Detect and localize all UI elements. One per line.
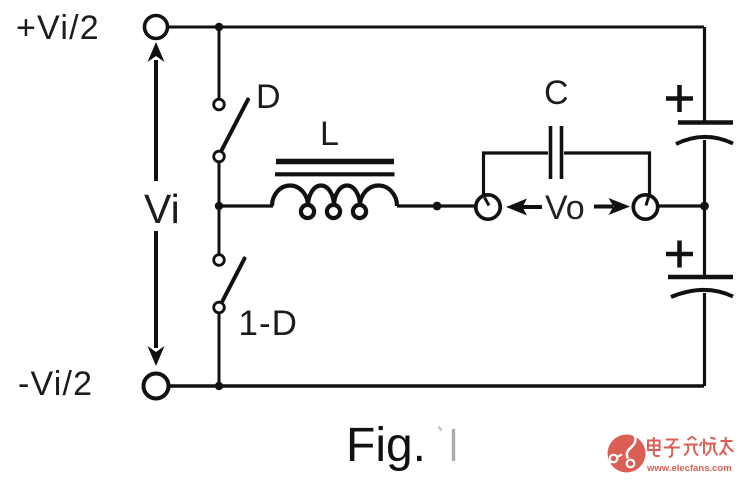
- wire switch column segment 1: [218, 27, 221, 99]
- caption figure number 1: [439, 427, 454, 462]
- node bottom junction: [215, 382, 223, 390]
- watermark text elecfans chinese: [648, 437, 733, 458]
- wire right rail lower: [703, 293, 706, 386]
- capacitor C2: [668, 277, 733, 297]
- wire right rail upper: [703, 27, 706, 121]
- svg-text:Vo: Vo: [545, 189, 585, 227]
- capacitor C2 plus sign: [666, 241, 693, 268]
- switch 1-D: [214, 255, 245, 313]
- svg-text:C: C: [544, 74, 569, 112]
- switch D: [214, 99, 248, 162]
- wire bottom rail: [169, 384, 704, 387]
- capacitor C1: [676, 123, 733, 145]
- terminal Vo right: [633, 195, 657, 219]
- arrow Vi double-headed: [148, 42, 165, 366]
- svg-text:+Vi/2: +Vi/2: [16, 9, 100, 47]
- inductor L core bars: [275, 162, 395, 175]
- arrow Vo right: [594, 198, 630, 215]
- svg-text:Vi: Vi: [144, 186, 180, 232]
- terminal -Vi/2: [144, 374, 169, 399]
- wire switch column segment 2: [218, 162, 221, 206]
- arrow Vo left: [506, 199, 542, 216]
- terminal +Vi/2: [145, 16, 168, 39]
- node middle junction: [215, 202, 223, 210]
- terminal Vo left: [476, 195, 500, 219]
- svg-text:D: D: [256, 78, 281, 116]
- wire right rail middle: [703, 140, 706, 275]
- svg-text:Fig.: Fig.: [346, 419, 426, 472]
- wire middle left: [219, 204, 273, 207]
- watermark logo elecfans: [606, 435, 646, 473]
- wire capacitor C left: [484, 153, 549, 197]
- capacitor C plates: [551, 126, 562, 179]
- node top junction: [215, 23, 223, 31]
- svg-text:L: L: [320, 115, 339, 153]
- inductor L coil: [272, 186, 397, 219]
- svg-text:-Vi/2: -Vi/2: [18, 365, 93, 403]
- wire capacitor C right: [564, 153, 650, 195]
- svg-text:www.elecfans.com: www.elecfans.com: [646, 463, 732, 474]
- wire switch column segment 4: [218, 313, 221, 386]
- wire Vo right to rail: [658, 204, 705, 207]
- node rail junction: [700, 202, 709, 211]
- wire middle right: [397, 204, 476, 207]
- wire switch column segment 3: [218, 206, 221, 255]
- svg-text:1-D: 1-D: [239, 304, 298, 343]
- wire top rail: [168, 26, 704, 29]
- capacitor C1 plus sign: [666, 85, 693, 112]
- node inductor-output junction: [433, 202, 442, 211]
